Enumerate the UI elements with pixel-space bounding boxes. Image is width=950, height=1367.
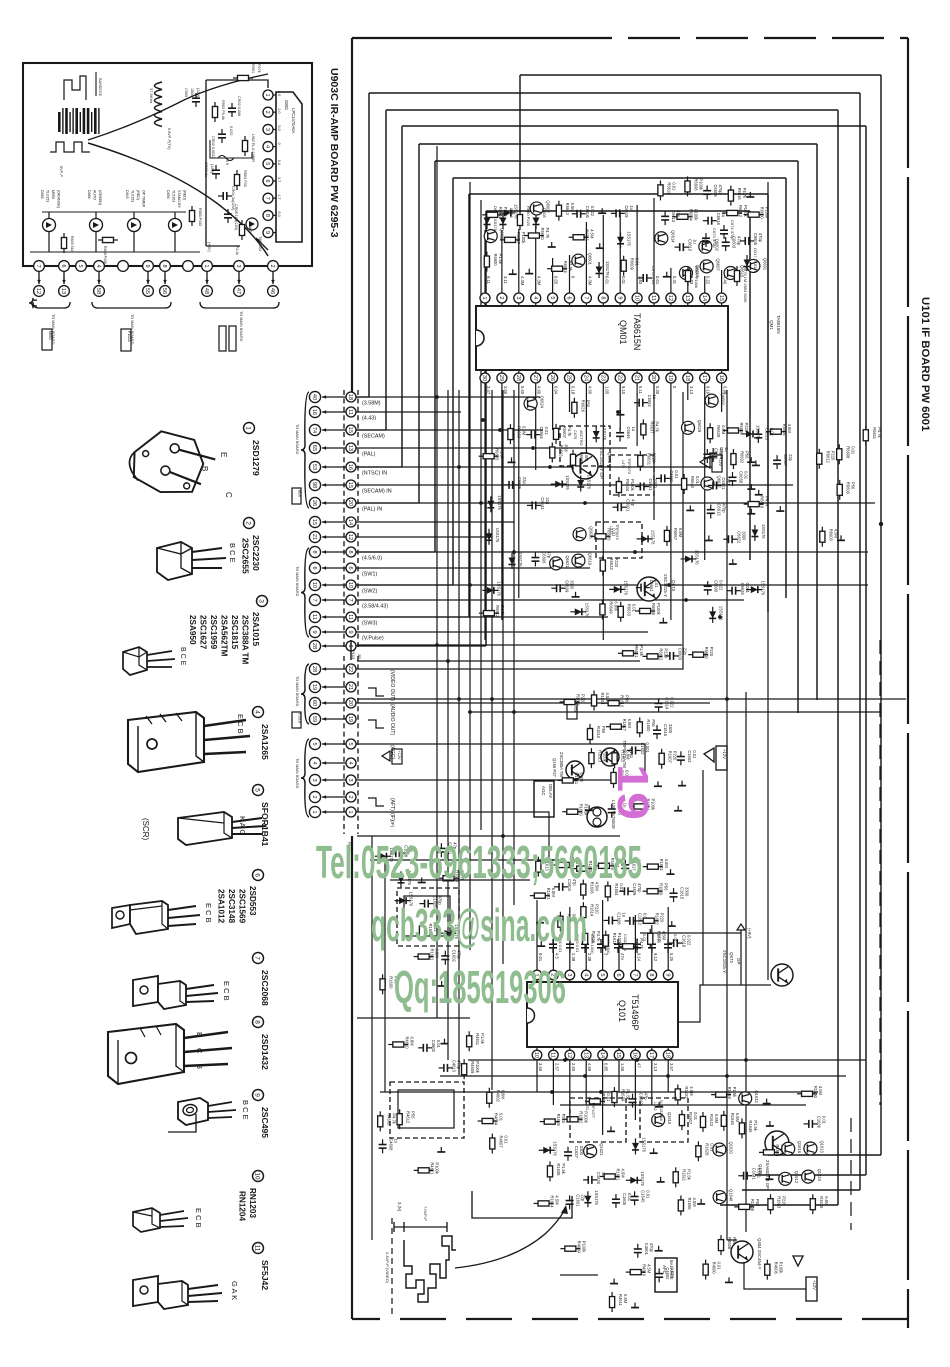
svg-text:R6611: R6611 — [666, 182, 671, 194]
resistor R1622 — [639, 918, 659, 923]
label 7 2SC2068 — [253, 953, 264, 964]
svg-text:P220: P220 — [744, 422, 749, 432]
svg-text:Q1620: Q1620 — [728, 1142, 733, 1155]
svg-text:1: 1 — [264, 93, 270, 96]
svg-text:P102A: P102A — [127, 331, 131, 342]
svg-text:6: 6 — [311, 566, 317, 569]
svg-text:1SS176: 1SS176 — [602, 425, 607, 440]
svg-text:0.01: 0.01 — [621, 276, 626, 285]
transistor Q671 2SC1815-Y GP — [572, 453, 598, 479]
svg-text:6.8M: 6.8M — [551, 888, 556, 898]
waveform measure bar — [394, 1226, 447, 1228]
label 6 2SD553 family — [253, 870, 264, 881]
resistor R6623 — [600, 556, 605, 576]
svg-text:1u: 1u — [721, 213, 726, 218]
svg-text:0.022: 0.022 — [670, 697, 675, 708]
svg-text:0.18: 0.18 — [571, 386, 576, 395]
svg-text:7: 7 — [583, 296, 589, 299]
svg-text:1SS176: 1SS176 — [651, 530, 656, 545]
wire long horizontal bottom bus 2 — [440, 1075, 846, 1077]
svg-text:(AFT): (AFT) — [389, 798, 395, 811]
svg-text:8: 8 — [311, 550, 317, 553]
svg-text:R6626: R6626 — [580, 400, 585, 413]
svg-text:4.5M: 4.5M — [833, 529, 838, 539]
resistor R4609 — [560, 1246, 580, 1251]
svg-text:2SC495: 2SC495 — [260, 1107, 270, 1138]
diode D1627 — [626, 1177, 642, 1184]
svg-text:1u: 1u — [622, 912, 627, 917]
transistor package 5 SFOR1B41 SCR — [178, 812, 266, 845]
wire feedback loop 5 left drop — [418, 144, 420, 503]
resistor R6634 — [616, 477, 621, 497]
svg-text:6.8M: 6.8M — [714, 1114, 719, 1124]
IF board outer frame right edge — [907, 38, 909, 1328]
svg-text:9: 9 — [616, 296, 622, 299]
wire QM01 pin 9 riser — [619, 212, 621, 293]
node connector pin 28/6 — [309, 640, 320, 651]
brace IR connector group 2 — [92, 302, 171, 308]
node connector pin 40/18 (3.58M) — [309, 391, 320, 402]
svg-text:P220: P220 — [594, 904, 599, 914]
svg-text:TL0153: TL0153 — [46, 190, 50, 202]
resistor R4608 — [718, 1235, 723, 1255]
svg-text:22p: 22p — [522, 477, 527, 485]
wire Q101 pin 17 dropper — [651, 1060, 653, 1105]
svg-text:R6640: R6640 — [690, 476, 695, 489]
capacitor C672 0.01 above pin12 — [638, 274, 652, 282]
svg-text:19: 19 — [608, 764, 657, 820]
svg-text:R1601: R1601 — [659, 859, 664, 872]
node G801 pin 7 — [263, 193, 273, 203]
resistor R6616 — [547, 266, 567, 271]
resistor R1600 — [637, 717, 642, 737]
capacitor C6661 — [635, 483, 649, 491]
svg-text:2SC1627: 2SC1627 — [199, 615, 208, 650]
svg-text:74: 74 — [311, 427, 317, 433]
svg-text:6.8M: 6.8M — [627, 719, 632, 729]
capacitor CR05 10u(16V) — [224, 209, 232, 223]
resistor R6612 — [817, 449, 822, 469]
wire Q101 pin 12 dropper — [569, 1060, 571, 1120]
svg-text:Q6662: Q6662 — [721, 393, 726, 406]
svg-text:C6613: C6613 — [671, 210, 676, 223]
diode D6620 — [486, 529, 493, 545]
wire dashed vertical bus x851 lower — [850, 1118, 852, 1230]
svg-text:(VIDEO OUT): (VIDEO OUT) — [389, 670, 395, 701]
svg-text:0.01: 0.01 — [769, 428, 774, 437]
ground stub near 6617 — [663, 272, 671, 277]
capacitor C6601 — [612, 503, 626, 511]
svg-text:1SS176: 1SS176 — [584, 603, 589, 618]
wire feedback loop 5 connector link — [356, 502, 419, 504]
svg-text:Q6601: Q6601 — [587, 253, 592, 266]
svg-text:8: 8 — [600, 296, 606, 299]
svg-text:47u: 47u — [620, 953, 625, 961]
IR waveform pulse glyph upper — [64, 76, 86, 100]
svg-text:P4.7k: P4.7k — [877, 427, 882, 438]
svg-text:P56: P56 — [563, 444, 568, 452]
wire QM01 pin 17 dropper — [704, 383, 706, 560]
svg-text:P4.7k: P4.7k — [742, 188, 747, 199]
ground stub near 4607 — [610, 1279, 618, 1284]
node Q101 pin 8 — [647, 970, 657, 980]
node G801 pin 4 — [263, 142, 273, 152]
svg-text:R4609: R4609 — [576, 1241, 581, 1254]
resistor R1617 — [606, 724, 626, 729]
svg-text:3.06: 3.06 — [503, 386, 508, 395]
svg-text:R1638: R1638 — [556, 1163, 561, 1176]
svg-text:5: 5 — [254, 788, 261, 792]
svg-text:R1602: R1602 — [634, 938, 639, 951]
svg-text:R676 1M 2654 500K: R676 1M 2654 500K — [743, 266, 748, 303]
svg-text:TRF1077: TRF1077 — [591, 1102, 595, 1118]
ground stub near 1619 — [667, 869, 675, 874]
capacitor C1605 — [419, 900, 433, 908]
wire feedback loop 7 — [453, 177, 786, 179]
svg-text:46: 46 — [269, 288, 275, 294]
capacitor C1617 — [621, 860, 629, 874]
svg-text:D856: D856 — [166, 190, 170, 199]
node IR board edge pad 7 — [34, 261, 45, 272]
capacitor C6600 — [704, 581, 712, 595]
svg-text:P100k: P100k — [743, 205, 748, 218]
ground stub near 6653 — [747, 484, 755, 489]
svg-text:3300: 3300 — [668, 724, 673, 734]
svg-text:8: 8 — [648, 973, 654, 976]
svg-text:U903C IR-AMP BOARD PW 6295-3: U903C IR-AMP BOARD PW 6295-3 — [328, 68, 340, 238]
svg-text:5: 5 — [77, 264, 83, 267]
svg-text:(3.58/4.43): (3.58/4.43) — [362, 604, 388, 610]
svg-text:D607 1SS176: D607 1SS176 — [493, 206, 498, 232]
transistor Q6638 — [573, 528, 586, 541]
svg-text:D317 1SS176: D317 1SS176 — [753, 248, 758, 274]
node connector pin 6/6 (SW1) — [309, 562, 320, 573]
svg-text:2SC380A TM: 2SC380A TM — [559, 752, 564, 777]
svg-text:R6608: R6608 — [694, 178, 699, 191]
svg-text:SFOR1B41: SFOR1B41 — [260, 802, 270, 847]
wire right bus to bottom transistor — [727, 1239, 737, 1241]
svg-text:55: 55 — [144, 288, 150, 294]
svg-text:11: 11 — [347, 614, 353, 620]
svg-text:L162: L162 — [653, 1102, 657, 1110]
wire QM01 pin 10 riser — [636, 205, 638, 293]
svg-text:4.5: 4.5 — [554, 953, 559, 959]
svg-text:10: 10 — [311, 582, 317, 588]
svg-text:5VP-P: 5VP-P — [59, 166, 63, 177]
resistor R1620 — [562, 809, 582, 814]
wire vertical bus right side — [726, 390, 728, 1240]
node connector pin 74/15 (SECAM) — [309, 424, 320, 435]
resistor R6616 — [723, 428, 743, 433]
svg-text:1u: 1u — [724, 447, 729, 452]
ground stub near 1620 — [536, 918, 544, 923]
svg-text:0.01: 0.01 — [499, 1113, 504, 1122]
svg-text:C905: C905 — [184, 88, 188, 97]
transistor Q6629 — [681, 421, 694, 434]
svg-text:24: 24 — [583, 375, 589, 381]
wire Q101 pin 8 riser — [651, 925, 653, 970]
svg-text:R883 P433: R883 P433 — [198, 208, 202, 226]
svg-text:P1.5k: P1.5k — [568, 261, 573, 272]
trap module dashed box L671 TRF5073 — [610, 455, 654, 495]
svg-text:R1628: R1628 — [704, 1143, 709, 1156]
wire QM01 pin 2 riser — [501, 230, 503, 293]
wire IR board bottom rail — [30, 251, 200, 253]
ground stub near 1643 — [657, 1177, 665, 1182]
svg-text:Qq:185619306: Qq:185619306 — [394, 961, 566, 1013]
svg-text:LPC1470A6A: LPC1470A6A — [291, 108, 296, 134]
svg-text:47p: 47p — [546, 551, 551, 559]
svg-text:9: 9 — [347, 630, 353, 633]
svg-text:8: 8 — [347, 550, 353, 553]
svg-text:6: 6 — [347, 644, 353, 647]
transistor Q6612 — [484, 230, 497, 243]
node QM01 pin 13 — [683, 293, 693, 303]
brace connector group A — [301, 392, 309, 508]
wire Q101 pin 2 riser — [552, 925, 554, 970]
IR amp block outline — [206, 80, 268, 88]
node main-board pin 56 — [163, 272, 167, 284]
capacitor C6625 — [504, 481, 518, 489]
svg-text:6: 6 — [347, 566, 353, 569]
node QM01 pin 15 — [717, 293, 727, 303]
svg-text:R803: R803 — [248, 224, 252, 233]
wire QM01 pin 27 dropper — [535, 383, 537, 470]
svg-text:(SW2): (SW2) — [362, 589, 377, 595]
wire arc from amp to IR detector — [88, 74, 268, 140]
svg-text:1SS176: 1SS176 — [626, 231, 631, 246]
svg-text:2SC2230: 2SC2230 — [251, 535, 261, 571]
capacitor C1605 — [612, 1194, 620, 1208]
svg-text:M555: M555 — [51, 190, 55, 199]
ground stub near 6614 — [776, 506, 784, 511]
resistor R1624 — [554, 862, 574, 867]
svg-text:0.01: 0.01 — [850, 446, 855, 455]
svg-text:3.11: 3.11 — [503, 276, 508, 285]
svg-text:12: 12 — [667, 295, 673, 301]
resistor R1611 — [673, 1167, 678, 1187]
svg-text:12: 12 — [35, 288, 41, 294]
wire feedback loop 9 left drop — [485, 211, 487, 646]
ground stub near 6606 — [837, 535, 845, 540]
svg-text:12: 12 — [566, 1052, 572, 1058]
svg-text:Q6619: Q6619 — [587, 553, 592, 566]
coil L901 37.9KHz oscillator squiggle — [155, 82, 163, 126]
transistor Q672 2SC1815-Y GP right — [771, 964, 793, 986]
svg-text:R1611: R1611 — [682, 1169, 687, 1181]
capacitor C1615 — [653, 725, 661, 739]
wire connector pin nets to bus verticals — [356, 396, 540, 398]
svg-text:20: 20 — [650, 375, 656, 381]
svg-text:E C B: E C B — [236, 714, 245, 734]
svg-text:1u: 1u — [629, 205, 634, 210]
svg-text:4: 4 — [311, 761, 317, 764]
svg-text:1.0: 1.0 — [277, 108, 281, 113]
wire feedback loop 2 — [369, 92, 860, 94]
svg-text:TO MAIN BOARD: TO MAIN BOARD — [295, 758, 299, 789]
svg-text:C6654: C6654 — [539, 427, 544, 440]
svg-text:C: C — [224, 492, 233, 498]
wire QM01 pin 14 riser — [704, 276, 706, 293]
wire dashed vertical bus x880 — [879, 640, 881, 1105]
svg-text:(RED): (RED) — [136, 190, 140, 200]
ground stub near 1607 — [537, 941, 545, 946]
node G801 pin 2 — [263, 107, 273, 117]
resistor R6602 — [642, 654, 662, 659]
svg-text:SF5J42: SF5J42 — [260, 1260, 270, 1290]
wire QM01 pin 11 riser — [653, 198, 655, 293]
svg-text:5.0: 5.0 — [277, 91, 281, 96]
svg-text:3P: 3P — [357, 654, 362, 659]
capacitor C4613 — [439, 1064, 453, 1072]
svg-text:0.01: 0.01 — [726, 477, 731, 486]
transistor Q6614 — [655, 232, 668, 245]
resistor R1628 — [696, 1141, 701, 1161]
svg-text:21: 21 — [633, 375, 639, 381]
node +12V marker near Q673 — [700, 455, 722, 472]
svg-text:0.022: 0.022 — [670, 1267, 675, 1278]
capacitor C4601 — [634, 1244, 642, 1258]
svg-text:R6600: R6600 — [846, 482, 851, 495]
svg-text:(16V): (16V) — [196, 88, 200, 98]
svg-text:C4608: C4608 — [389, 1138, 394, 1151]
svg-text:4BCTRO: 4BCTRO — [579, 430, 583, 445]
wire Q101 pin 13 dropper — [585, 1060, 587, 1105]
resistor R6600 — [688, 652, 708, 657]
diode D6610 — [709, 607, 716, 623]
svg-text:D865: D865 — [40, 190, 44, 199]
svg-text:R845 51k: R845 51k — [70, 236, 74, 252]
wire feedback loop 1 — [520, 74, 881, 76]
wire connector pin 1 net — [356, 812, 549, 860]
resistor R4606 — [378, 1111, 383, 1131]
capacitor C6610 — [675, 243, 689, 251]
svg-text:2: 2 — [245, 521, 252, 525]
svg-text:19: 19 — [347, 716, 353, 722]
resistor R6617 — [500, 237, 520, 242]
resistor R6603 — [820, 527, 825, 547]
resistor R6608 — [685, 176, 690, 196]
capacitor C103 — [566, 939, 574, 953]
wire vertical bus group center-left — [436, 146, 438, 1018]
resistor R6608 — [837, 444, 842, 464]
svg-text:1.05: 1.05 — [620, 1063, 625, 1072]
ground stub near 6644 — [616, 410, 624, 415]
svg-text:1SS176: 1SS176 — [553, 1141, 558, 1156]
svg-text:Q6607: Q6607 — [716, 258, 721, 271]
svg-text:P100k: P100k — [699, 178, 704, 191]
svg-text:R1616: R1616 — [656, 931, 661, 944]
svg-text:6.04: 6.04 — [554, 386, 559, 395]
node junction dots on bus crossings — [435, 395, 748, 1094]
svg-text:16: 16 — [311, 409, 317, 415]
op-amp U QM01 TA8615N body — [476, 306, 728, 370]
ground stub near 1619 — [678, 781, 686, 786]
resistor R1606 — [581, 880, 586, 900]
resistor R6600 — [744, 212, 764, 217]
label 11 SF5J42 — [253, 1243, 264, 1254]
capacitor C1602 — [629, 1094, 637, 1108]
svg-text:C673 470p: C673 470p — [712, 228, 717, 248]
resistor R1600 — [797, 1091, 817, 1096]
diode D6665 — [637, 535, 653, 542]
svg-text:25: 25 — [566, 375, 572, 381]
svg-text:3.13: 3.13 — [689, 386, 694, 395]
svg-text:R6637: R6637 — [649, 421, 654, 434]
svg-text:2SC388A TM: 2SC388A TM — [241, 615, 250, 664]
svg-text:R6605: R6605 — [495, 448, 500, 461]
svg-text:R4612: R4612 — [406, 1111, 411, 1124]
wire QM01 pin 12 riser — [670, 268, 672, 293]
svg-text:3: 3 — [235, 264, 241, 267]
node G801 pin 1 — [263, 90, 273, 100]
svg-text:6: 6 — [615, 973, 621, 976]
node main-board pin 13 — [62, 272, 66, 284]
node QM01 pin 2 — [497, 293, 507, 303]
capacitor C6635 — [727, 587, 741, 595]
resistor R1611 — [558, 778, 578, 783]
svg-text:K A G: K A G — [238, 816, 247, 835]
resistor R1613 — [536, 857, 541, 877]
svg-text:5.11: 5.11 — [638, 386, 643, 395]
svg-text:1: 1 — [347, 810, 353, 813]
transistor Q6627 — [701, 477, 714, 490]
capacitor C1608 — [391, 849, 405, 857]
svg-text:0.022: 0.022 — [719, 580, 724, 591]
resistor R1631 — [600, 1174, 620, 1179]
svg-text:R6616: R6616 — [739, 422, 744, 435]
svg-text:R6616: R6616 — [563, 261, 568, 274]
svg-text:C6625: C6625 — [517, 477, 522, 490]
node IR board edge pad 8 — [160, 261, 171, 272]
wire feedback loop 4 — [402, 125, 866, 127]
svg-text:1SS176: 1SS176 — [594, 1190, 599, 1205]
svg-text:R1611: R1611 — [574, 772, 579, 784]
svg-text:R1613: R1613 — [597, 750, 602, 763]
node connector pin 1/1 (IF) — [309, 806, 320, 817]
resistor R1640 — [721, 1111, 726, 1131]
svg-text:8: 8 — [161, 264, 167, 267]
svg-text:C6609: C6609 — [564, 580, 569, 593]
wire QM01 pin 15 riser — [721, 270, 723, 293]
svg-text:22p: 22p — [683, 648, 688, 656]
node QM01 pin 6 — [565, 293, 575, 303]
capacitor CR02 0.022 / 0.0022 — [218, 129, 226, 143]
diode D6656 — [487, 496, 494, 512]
trap module dashed box L672 TRF5072 — [596, 522, 642, 558]
svg-text:P1.5k: P1.5k — [687, 1169, 692, 1180]
svg-text:0.01: 0.01 — [822, 1116, 827, 1125]
resistor R1614 — [581, 902, 586, 922]
svg-text:C1615: C1615 — [680, 887, 685, 900]
wire QM01 pin 18 dropper — [687, 383, 689, 400]
ground stub near 4605 — [631, 1303, 639, 1308]
resistor R676 1M — [734, 266, 739, 286]
svg-text:P56: P56 — [732, 1237, 737, 1245]
shield module dashed box 1 — [397, 888, 459, 946]
svg-text:4.69: 4.69 — [587, 1063, 592, 1072]
IR waveform pulse glyph lower — [50, 142, 90, 152]
svg-text:6.8M: 6.8M — [626, 750, 631, 760]
diode D1604 — [397, 871, 404, 887]
wire connector pin 22 net to video out — [356, 392, 683, 669]
op-amp G801 LPC1470A body — [276, 92, 302, 242]
svg-text:R1631: R1631 — [616, 1168, 621, 1181]
svg-text:C6643: C6643 — [540, 497, 545, 510]
svg-text:R6602: R6602 — [739, 451, 744, 464]
svg-text:D845: D845 — [125, 190, 129, 199]
svg-text:C4600: C4600 — [431, 1040, 436, 1053]
